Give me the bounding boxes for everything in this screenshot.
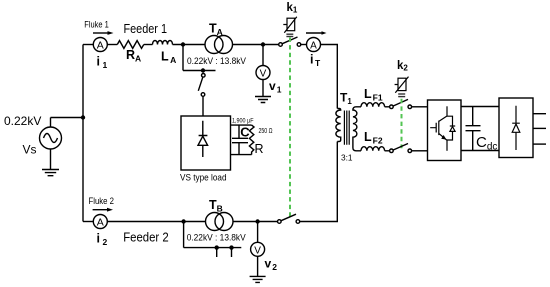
transformer T1 secondary: [353, 107, 361, 151]
wire k1 to ammeter: [301, 44, 307, 46]
VS type load box: [181, 116, 231, 170]
voltmeter V2: [251, 222, 265, 257]
diode D2: [512, 106, 520, 150]
node tap junction: [181, 42, 185, 46]
svg-text:A: A: [310, 41, 317, 52]
resistor RA: [117, 41, 144, 49]
arrow fluke1: [93, 31, 114, 35]
diode D load: [198, 121, 208, 157]
wire LA to TA: [173, 44, 206, 46]
switch load disconnect: [198, 74, 205, 97]
inductor LF1: [361, 103, 385, 107]
wire output line 3: [533, 143, 546, 145]
svg-text:1,900 µF: 1,900 µF: [232, 117, 254, 124]
switch k2a: [390, 99, 412, 108]
node tap b1: [215, 245, 219, 249]
svg-text:0.22kV: 0.22kV: [4, 114, 41, 128]
wire output line 2: [533, 127, 546, 129]
ammeter A1: [93, 38, 107, 52]
svg-text:A: A: [97, 217, 104, 229]
resistor R: [249, 125, 254, 155]
svg-text:Fluke 2: Fluke 2: [89, 196, 115, 206]
wire k2b to converter: [412, 150, 428, 152]
ground source: [42, 149, 59, 176]
inductor LA: [153, 41, 173, 45]
svg-text:3:1: 3:1: [341, 153, 353, 163]
node source junction: [81, 115, 85, 119]
inductor LF2: [361, 147, 385, 151]
node tap: [201, 68, 205, 72]
node tap b2: [229, 245, 233, 249]
svg-text:Feeder 2: Feeder 2: [123, 229, 169, 244]
svg-text:v1: v1: [269, 79, 282, 95]
wire LF1 to k2a: [385, 106, 390, 108]
svg-text:LA: LA: [161, 50, 176, 66]
wire dc bottom rail: [461, 150, 499, 152]
svg-text:TB: TB: [209, 198, 223, 214]
wire load to C R top: [231, 124, 252, 126]
switch k1: [279, 37, 301, 46]
capacitor C: [232, 125, 248, 155]
breaker symbol k2: [395, 77, 409, 98]
ammeter iT: [307, 38, 321, 52]
wire output line 1: [533, 113, 546, 115]
wire TB to switch: [233, 221, 278, 223]
transformer T1 primary: [336, 109, 341, 142]
wire load to C R bottom: [231, 154, 252, 156]
ground v1: [255, 80, 271, 103]
svg-text:V: V: [260, 69, 267, 80]
wire tap stubs: [217, 248, 232, 257]
wire TA to k1: [233, 44, 279, 46]
svg-text:TA: TA: [209, 22, 223, 38]
node TB tap: [181, 219, 185, 223]
svg-text:k1: k1: [287, 2, 298, 15]
svg-text:k2: k2: [397, 60, 408, 73]
wire bus to ammeter A2: [83, 221, 93, 223]
svg-text:0.22kV : 13.8kV: 0.22kV : 13.8kV: [187, 56, 247, 66]
svg-text:VS type load: VS type load: [180, 173, 227, 183]
ammeter A2: [93, 215, 107, 229]
wire switch to load box: [202, 96, 204, 116]
rectifier box U2: [499, 98, 533, 158]
transformer TB: [206, 213, 234, 231]
svg-text:C: C: [240, 125, 250, 140]
svg-text:250 Ω: 250 Ω: [259, 126, 273, 135]
transformer TA: [205, 36, 233, 54]
svg-text:Feeder 1: Feeder 1: [124, 21, 168, 36]
IGBT Q1: [430, 106, 455, 151]
svg-text:RA: RA: [126, 48, 141, 64]
wire TA tap down: [183, 45, 216, 71]
svg-text:iT: iT: [310, 53, 321, 69]
converter box U1: [428, 100, 462, 161]
svg-text:R: R: [255, 142, 264, 156]
wire main bus left: [82, 45, 84, 222]
arrow iT: [306, 31, 327, 35]
svg-text:LF1: LF1: [364, 87, 383, 103]
wire iT to T1: [321, 45, 338, 109]
wire TB tap down: [184, 222, 242, 248]
svg-text:T1: T1: [340, 91, 352, 107]
transformer T1 core: [344, 111, 349, 145]
node v2 tap: [255, 219, 259, 223]
wire LF2 to k2b: [385, 150, 390, 152]
switch k2b: [390, 144, 412, 153]
fault line 1: [289, 38, 291, 218]
fault line 2: [401, 99, 403, 149]
svg-text:i2: i2: [97, 232, 108, 248]
wire ammeter to RA: [107, 44, 117, 46]
AC source Vs: [40, 127, 62, 149]
wire S2 to T1: [300, 142, 338, 222]
svg-text:v2: v2: [265, 257, 278, 273]
breaker symbol k1: [283, 17, 297, 37]
node v1 tap: [261, 42, 265, 46]
switch S2: [278, 214, 300, 223]
voltmeter V1: [256, 45, 270, 80]
arrow fluke2: [93, 208, 113, 212]
svg-text:i1: i1: [97, 55, 108, 71]
svg-text:V: V: [254, 245, 261, 256]
svg-text:0.22kV : 13.8kV: 0.22kV : 13.8kV: [187, 233, 247, 243]
svg-text:Vs: Vs: [23, 143, 37, 157]
svg-text:A: A: [97, 40, 104, 52]
svg-text:LF2: LF2: [364, 130, 383, 146]
ground v2: [250, 256, 266, 282]
wire RA to LA: [144, 44, 153, 46]
svg-text:Fluke 1: Fluke 1: [84, 20, 109, 30]
wire source to bus: [51, 118, 84, 128]
capacitor Cdc: [466, 107, 481, 151]
wire bus to ammeter: [83, 44, 93, 46]
svg-text:Cdc: Cdc: [476, 134, 497, 153]
wire k2a to converter: [412, 106, 428, 108]
wire dc top rail: [461, 106, 499, 108]
wire A2 to TB: [107, 221, 205, 223]
